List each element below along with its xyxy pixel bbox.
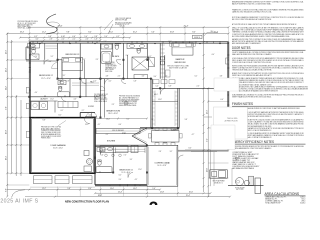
right wall window frames [226,58,229,64]
interior wall bed3 right [79,43,81,97]
bath2 toilet [59,87,62,91]
window tag W1 [193,35,203,38]
svg-text:12'-4": 12'-4" [5,67,7,72]
nightstands [170,43,172,47]
svg-text:10'-0": 10'-0" [109,32,114,34]
kitchen dim line [95,118,147,120]
svg-text:31'-8" x 23'-0": 31'-8" x 23'-0" [53,148,63,150]
svg-text:2'-8": 2'-8" [67,81,70,83]
svg-text:MOUNTED FIXTURES VERIFY: MOUNTED FIXTURES VERIFY [119,99,139,101]
svg-text:5'-0": 5'-0" [84,36,88,38]
vertical dimension line far left [6,34,8,197]
water heater platform detail [210,170,228,178]
svg-text:PER CODE: PER CODE [105,71,112,73]
svg-text:BEDROOM #4: BEDROOM #4 [119,169,133,171]
svg-text:4'-10": 4'-10" [61,36,65,38]
svg-text:COVERED LANAI: COVERED LANAI [154,162,170,165]
svg-text:21'-4": 21'-4" [118,192,123,194]
svg-text:DINING: DINING [172,129,179,131]
svg-text:9'-2": 9'-2" [206,138,208,142]
svg-text:2,485.0: 2,485.0 [300,197,305,199]
svg-text:PROVIDE TILE: PROVIDE TILE [105,62,115,64]
svg-text:5'-8": 5'-8" [134,81,137,83]
bath3 tub [96,167,112,173]
svg-text:6'-6": 6'-6" [119,124,122,126]
svg-text:10'-2": 10'-2" [133,188,137,190]
hall bath toilet [115,45,118,50]
svg-text:7'-0": 7'-0" [124,155,127,157]
svg-text:9'-8": 9'-8" [43,120,46,122]
ceiling fan great room [124,101,128,105]
svg-text:W-6: W-6 [211,31,214,33]
svg-text:9'-8": 9'-8" [67,188,71,190]
svg-text:18'-0" x 20'-8": 18'-0" x 20'-8" [108,113,118,115]
house bottom wall right section double [178,149,229,151]
svg-text:38'-4": 38'-4" [98,195,103,197]
svg-text:29'-4": 29'-4" [58,25,63,27]
svg-text:2'-8": 2'-8" [50,39,53,41]
svg-text:12'-8": 12'-8" [163,143,167,145]
vertical dimension line right outer [207,88,209,197]
shower curb [134,75,148,79]
sliding door right section [185,149,211,151]
svg-text:PROVIDE 5/8" TYPE X GYP BD: PROVIDE 5/8" TYPE X GYP BD [41,127,61,129]
garage water heater [87,159,93,165]
outlet ticks along walls [39,43,40,45]
svg-text:AIR SEALING PER TABLE: AIR SEALING PER TABLE [232,167,254,170]
interior wall mbath left [146,43,148,60]
extra vertical dim near lanai [213,152,215,186]
revision squiggle mark [46,14,57,34]
interior wall mbath-mbed [159,43,161,79]
bath1 toilet [32,49,36,54]
svg-text:5'-6": 5'-6" [152,188,156,190]
svg-text:GREAT ROOM: GREAT ROOM [106,110,120,113]
water softener box [255,178,261,194]
vertical line lanai dim [210,150,212,186]
bath1 vanity [28,44,40,49]
hall bath vanity [101,44,112,49]
bed2 door arc [52,63,58,69]
exterior wall right double line [227,42,229,151]
svg-text:BEDROOM #3: BEDROOM #3 [66,54,80,56]
svg-text:12'-8": 12'-8" [160,192,165,194]
dimension line overall top [29,26,228,28]
svg-text:5'-8": 5'-8" [185,119,188,121]
master shower with X [132,57,149,70]
master closet shelving [162,43,164,79]
svg-text:FOYER: FOYER [88,106,95,108]
hall bath tub [101,52,112,64]
svg-text:ENCLOSURE: ENCLOSURE [105,69,114,71]
svg-text:5'-4": 5'-4" [104,36,108,38]
master suite front wall [152,87,228,89]
svg-text:2'-3": 2'-3" [96,59,99,61]
hall door arc [100,86,105,91]
vertical dimension line left 3 [15,95,17,176]
svg-text:6'-4": 6'-4" [221,99,224,101]
svg-text:5'-0": 5'-0" [33,46,36,48]
laundry walls [29,100,57,102]
svg-text:12'-2": 12'-2" [42,188,46,190]
covered lanai walls [147,145,178,186]
svg-text:18'-4": 18'-4" [5,155,7,160]
svg-text:10'-8": 10'-8" [170,32,175,34]
svg-text:STRUCT DWGS TYP: STRUCT DWGS TYP [94,99,107,101]
svg-text:6'-2": 6'-2" [34,36,38,38]
svg-text:2'-2": 2'-2" [73,39,76,41]
svg-text:700% & 93%: 700% & 93% [227,118,238,120]
svg-text:25'-4": 25'-4" [184,25,189,27]
svg-text:6'-2": 6'-2" [195,76,198,78]
svg-text:2'-2": 2'-2" [106,134,109,136]
svg-text:3'-6": 3'-6" [49,61,52,63]
svg-text:2'-7": 2'-7" [82,110,85,112]
svg-text:3'-4": 3'-4" [89,115,92,117]
svg-text:2'-8": 2'-8" [159,151,162,153]
svg-text:2: 2 [149,198,158,205]
interior wall hallbath right [122,43,124,79]
junction squares [57,78,59,80]
house bottom wall middle double [95,184,147,186]
svg-text:3,528.0: 3,528.0 [300,202,305,204]
svg-text:PTRY: PTRY [122,133,126,135]
window tag leader right [207,32,218,34]
hall closet rods [72,82,99,84]
svg-text:12'-2": 12'-2" [42,32,47,34]
svg-text:6'-2": 6'-2" [149,56,152,58]
svg-text:FINISH NOTES: FINISH NOTES [232,102,254,106]
bottom dimension line 1 [7,189,160,191]
svg-text:9'-2": 9'-2" [127,119,130,121]
svg-text:8'-6": 8'-6" [189,148,192,150]
svg-text:1'-4": 1'-4" [165,76,168,78]
white callout box small [214,78,239,91]
svg-text:14'-6": 14'-6" [206,109,208,114]
leader line [104,20,113,30]
svg-text:4'-2": 4'-2" [109,81,112,83]
garage walls thick [30,118,95,174]
svg-text:8'-4": 8'-4" [88,188,92,190]
bath1 bottom wall double [26,60,58,62]
AC condenser units [236,178,244,186]
master closet right wall double [177,88,179,128]
svg-text:13'-6": 13'-6" [5,49,7,54]
svg-text:3'-6": 3'-6" [142,76,145,78]
island stools [105,154,108,157]
kitchen-bath3 wall double [95,144,147,146]
svg-text:16080 SL: 16080 SL [194,37,201,39]
svg-text:34'-4": 34'-4" [20,32,25,34]
svg-text:3'-1": 3'-1" [63,75,66,77]
svg-text:5'-6": 5'-6" [101,155,104,157]
svg-text:10'-2": 10'-2" [133,32,138,34]
foyer entry double door [85,116,97,118]
garage step wall top right [80,112,95,114]
svg-text:POOL EQUIP.: POOL EQUIP. [235,187,245,189]
svg-text:BEDROOM #2: BEDROOM #2 [39,75,53,77]
bed2 window mullions [29,62,31,64]
linen diagonal box [149,58,155,67]
left wall bump at bath [26,46,29,48]
garage door panels [34,176,53,184]
bed4 closet rods [116,148,146,150]
svg-text:3'-0": 3'-0" [99,95,102,97]
svg-text:11'-6": 11'-6" [138,169,142,171]
svg-text:3 CAR GARAGE: 3 CAR GARAGE [50,144,66,147]
svg-text:10'-6": 10'-6" [189,192,194,194]
dimension line top second [7,33,228,35]
svg-text:8'-0": 8'-0" [169,41,172,43]
svg-text:ENERGY EFFICIENCY NOTES: ENERGY EFFICIENCY NOTES [232,140,275,144]
closet wall bottom [70,96,100,98]
svg-text:3'-8": 3'-8" [94,36,98,38]
svg-text:3'-2": 3'-2" [119,175,122,177]
vertical dimension line right inner [203,34,205,192]
svg-text:3'-2": 3'-2" [170,151,173,153]
bath1 shower [30,54,39,60]
kitchen left wall [94,128,96,185]
svg-text:COMMON TO DWELLING UNIT: COMMON TO DWELLING UNIT [41,130,61,132]
svg-text:10'-0" x 12'-8": 10'-0" x 12'-8" [157,165,167,167]
svg-text:4'-5": 4'-5" [135,179,138,181]
svg-text:3'-0": 3'-0" [36,39,39,41]
closet built-ins row [153,80,159,84]
interior wall great room left double [150,79,152,129]
exterior wall left double line [28,42,30,118]
svg-text:2025 AI IMF S: 2025 AI IMF S [0,198,38,204]
svg-text:11'-2" x 12'-6": 11'-2" x 12'-6" [41,78,51,80]
svg-text:10'-8": 10'-8" [158,99,162,101]
svg-text:6'-1": 6'-1" [61,110,64,112]
vertical dimension line left 2 [11,40,13,173]
svg-text:4'-0": 4'-0" [212,54,215,56]
bath1 closet wall [44,43,46,60]
bath3 vanity [97,148,105,152]
leader line from note [58,121,66,126]
svg-text:2'-0": 2'-0" [35,56,38,58]
top extension lines [28,27,30,41]
svg-text:3'-0": 3'-0" [154,76,157,78]
bed3 bed [62,58,83,71]
bottom leader arc [12,190,26,198]
svg-text:8'-4": 8'-4" [88,32,92,34]
interior wall bed3 left [57,43,59,79]
svg-text:8'-2": 8'-2" [59,115,62,117]
exterior wall top double line [29,41,228,43]
svg-text:PER IRC R309: PER IRC R309 [41,138,51,140]
svg-text:1'-6": 1'-6" [83,59,86,61]
svg-text:3'-3": 3'-3" [130,159,133,161]
svg-text:2'-1": 2'-1" [151,119,154,121]
svg-text:2'-5": 2'-5" [118,76,121,78]
svg-text:W.I.C.: W.I.C. [154,94,159,96]
white box lower right of plan [211,125,235,150]
bath2 tub [58,92,70,97]
interior wall closet divider [58,59,62,61]
laundry washer dryer [31,102,39,110]
svg-text:SELF CLOSING 20 MIN DOOR: SELF CLOSING 20 MIN DOOR [41,132,61,134]
svg-text:4'-6": 4'-6" [72,36,76,38]
bed2 bottom wall [29,96,80,98]
svg-text:5'-4": 5'-4" [156,86,159,88]
svg-text:298.0: 298.0 [301,201,305,203]
svg-text:5'-2": 5'-2" [51,56,54,58]
great room - dining wall double [140,127,179,129]
kitchen island [100,146,128,153]
kitchen upper counter [96,129,140,134]
bath3 right wall [112,146,114,172]
svg-text:4'-7": 4'-7" [192,134,195,136]
water closet wall [112,43,114,57]
right extension lines [208,87,228,89]
bath1 closet rods [46,45,58,47]
refrigerator box [131,146,138,153]
interior wall hall-foyer [99,43,101,118]
svg-text:5'-8": 5'-8" [48,36,52,38]
svg-text:9'-8": 9'-8" [66,32,70,34]
master bath toilet [137,49,140,53]
svg-text:2'-4": 2'-4" [126,55,129,57]
svg-text:NEW CONSTRUCTION FLOOR PLAN: NEW CONSTRUCTION FLOOR PLAN [65,200,109,204]
left extension lines [7,41,29,43]
svg-text:AREA CALCULATIONS: AREA CALCULATIONS [265,192,300,196]
window mullions top wall [32,41,34,43]
svg-text:4'-8": 4'-8" [106,76,109,78]
closet divider light [152,101,178,103]
svg-text:9'-4": 9'-4" [119,179,122,181]
wic shelving rods [154,91,156,127]
svg-text:2'-4": 2'-4" [62,39,65,41]
svg-text:11'-0" x 11'-6": 11'-0" x 11'-6" [121,172,130,174]
vertical dimension line left 4 [20,100,22,176]
svg-text:TEMPERED GLS: TEMPERED GLS [105,67,116,69]
svg-text:2'-9": 2'-9" [112,104,115,106]
svg-text:16'-4": 16'-4" [106,119,110,121]
svg-text:SURROUND TO: SURROUND TO [105,64,116,66]
master door frames [161,57,164,60]
svg-text:4'-1": 4'-1" [98,124,101,126]
svg-text:20'-2": 20'-2" [85,124,89,126]
dining table and chairs [152,131,180,143]
closet divider wall [85,79,87,97]
svg-text:745.0: 745.0 [301,199,305,201]
bottom extension lines [57,187,59,197]
master bath double vanity [127,44,147,49]
svg-text:6'-0": 6'-0" [94,81,97,83]
window mullions bottom wall [119,184,121,186]
svg-text:BEDROOM: BEDROOM [175,62,186,64]
master bed [172,43,193,56]
svg-text:2'-6": 2'-6" [104,41,107,43]
bottom dimension line 3 overall [55,196,230,198]
bath3 toilet [98,161,101,165]
left wall window frames [26,88,29,94]
svg-text:10'-0": 10'-0" [110,188,114,190]
svg-text:MASTER: MASTER [176,58,185,61]
svg-text:1'-8": 1'-8" [95,39,98,41]
leader to callout [204,116,212,118]
svg-text:11'-0": 11'-0" [50,99,54,101]
svg-text:DOOR NOTES: DOOR NOTES [232,46,251,50]
dimension line top fourth short [29,39,100,41]
svg-text:11'-2": 11'-2" [5,86,7,91]
svg-text:8'-0": 8'-0" [5,188,7,192]
mudroom lockers [58,102,78,108]
svg-text:PRIOR TO ROUGH-IN TYP: PRIOR TO ROUGH-IN TYP [119,103,137,105]
svg-text:4'-4": 4'-4" [35,92,38,94]
svg-text:5'-6": 5'-6" [151,32,155,34]
svg-text:4'-2": 4'-2" [116,36,120,38]
driveway edge line [30,186,95,188]
svg-text:8'-0": 8'-0" [192,32,196,34]
svg-text:KITCHEN: KITCHEN [107,141,116,143]
master dresser [166,70,171,77]
bottom dimension line 2 [95,192,211,194]
door arcs [60,79,65,84]
dimension line top third [20,37,130,39]
svg-text:4'-6": 4'-6" [74,99,77,101]
white callout box over notes [214,107,248,139]
equipment ground line [228,185,264,187]
bath3 bottom wall [95,172,113,174]
svg-text:3'-8": 3'-8" [220,76,223,78]
svg-text:20'-8": 20'-8" [5,129,7,134]
leader vertical at notes edge [231,168,233,186]
pool equipment box [249,176,254,185]
svg-text:6'-8": 6'-8" [169,86,172,88]
svg-text:54'-8": 54'-8" [119,25,124,27]
svg-text:2'-0": 2'-0" [197,86,200,88]
svg-text:2'-6": 2'-6" [86,39,89,41]
corridor wall horizontal [58,78,151,80]
svg-text:9'-0": 9'-0" [5,106,7,110]
bath2 vanity [58,81,66,85]
svg-text:25'-4": 25'-4" [186,195,191,197]
svg-text:12'-0": 12'-0" [206,167,208,172]
window mullions right wall [227,54,229,56]
dining bay angled walls [132,128,147,136]
